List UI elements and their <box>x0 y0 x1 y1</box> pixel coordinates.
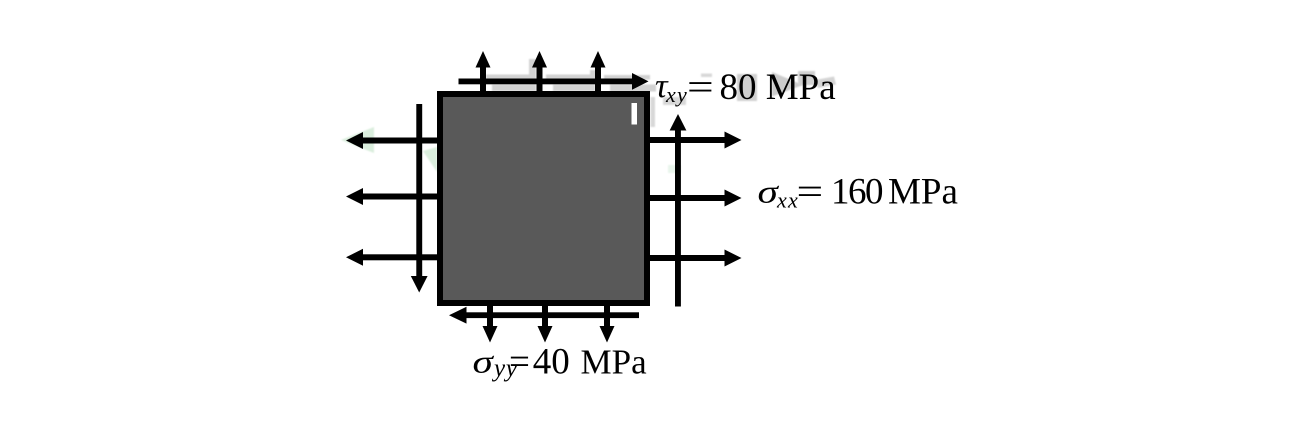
label sigma_xx = 160 MPa <box>758 171 958 212</box>
ghost of square corner near tau <box>651 97 656 127</box>
svg-text:=: = <box>797 171 824 212</box>
sigma_xx right arrow 1 (rightward) <box>645 132 742 149</box>
sigma_xx right arrow 3 (rightward) <box>645 250 742 267</box>
tau_xy top shear arrow (rightward) <box>459 73 649 90</box>
ghost shadow band below top shear arrow <box>492 85 656 92</box>
green artifact left of square edge <box>423 147 437 172</box>
sigma_xx right arrow 2 (rightward) <box>645 190 742 207</box>
green artifact small near right arrow 2 <box>668 165 681 173</box>
ghost blob behind digit 0 <box>737 74 757 101</box>
ghost stem of top arrow 3 <box>590 70 597 84</box>
sigma_xx left arrow 3 (leftward) <box>346 249 437 266</box>
tau_xy right shear arrow (upward) <box>670 114 687 307</box>
sigma_yy top arrow 2 (up) <box>532 51 547 96</box>
sigma_xx left arrow 1 (leftward) <box>346 132 437 149</box>
sigma_yy top arrow 1 (up) <box>476 51 491 96</box>
svg-text:=: = <box>687 67 714 108</box>
tau_xy left shear arrow (downward) <box>411 104 428 293</box>
svg-text:σ: σ <box>473 344 495 380</box>
tau_xy bottom shear arrow (leftward) <box>449 307 639 324</box>
green artifact behind left arrow 1 head <box>341 127 374 153</box>
ghost streak under tau subscript <box>663 97 686 105</box>
ghost arrowhead behind MPa <box>772 72 803 97</box>
ghost streak behind letter a <box>815 77 836 89</box>
ghost blob above P <box>798 71 815 85</box>
svg-text:80 MPa: 80 MPa <box>720 67 836 108</box>
svg-text:xx: xx <box>776 188 799 213</box>
svg-text:MPa: MPa <box>581 343 648 382</box>
label tau_xy = 80 MPa <box>655 66 836 108</box>
svg-text:40: 40 <box>533 342 570 383</box>
ghost dash left of equals <box>701 74 712 78</box>
svg-text:MPa: MPa <box>888 172 958 213</box>
svg-text:=: = <box>509 342 530 383</box>
sigma_yy bottom arrow 1 (down) <box>483 306 498 343</box>
label sigma_yy = 40 MPa <box>473 342 648 383</box>
sigma_yy top arrow 3 (up) <box>591 51 606 96</box>
sigma_xx left arrow 2 (leftward) <box>346 188 437 205</box>
sigma_yy bottom arrow 3 (down) <box>600 306 615 343</box>
svg-text:xy: xy <box>665 82 688 107</box>
sigma_yy bottom arrow 2 (down) <box>538 306 553 343</box>
svg-text:160: 160 <box>831 172 883 213</box>
ghost stem of top arrow 2 <box>529 59 536 84</box>
white tick mark inside top-right <box>632 103 638 125</box>
ghost shadow band above top shear arrow <box>486 75 650 80</box>
stress element square <box>440 94 647 303</box>
